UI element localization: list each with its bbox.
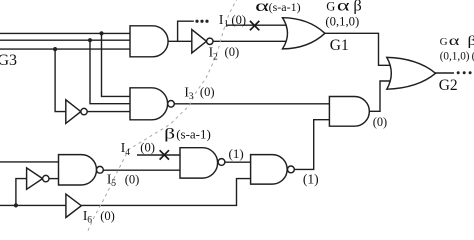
- svg-text:6: 6: [87, 216, 92, 226]
- buffer V4 triangle (branch I6): [66, 194, 81, 217]
- OR gate G2: [387, 57, 436, 89]
- wire OR G2 output: [435, 72, 454, 74]
- junction on bottom input line: [14, 203, 18, 207]
- wire NAND N1 output (net I3) to AND A2 top input: [174, 103, 329, 105]
- wire AND A2 output to OR G2 lower input: [369, 81, 390, 111]
- junction on bus line 1: [99, 31, 103, 35]
- svg-text:5: 5: [111, 179, 116, 189]
- svg-text:(s-a-1): (s-a-1): [176, 127, 211, 142]
- wire fanout stem branch up to ellipsis: [178, 21, 194, 41]
- wire inverter V3 output to NAND N3 bottom input: [49, 178, 59, 180]
- inverter V1 triangle: [66, 100, 81, 124]
- svg-text:(0): (0): [373, 115, 387, 129]
- svg-text:G: G: [440, 36, 448, 48]
- svg-text:(1): (1): [229, 146, 244, 161]
- inverter V2 bubble: [207, 38, 213, 44]
- svg-text:G1: G1: [330, 37, 349, 54]
- fault X mark alpha on I1 wire: [250, 21, 259, 30]
- svg-text:G2: G2: [439, 77, 458, 94]
- junction on bus line 2: [88, 38, 92, 42]
- AND gate A2 (2-input): [329, 97, 369, 127]
- wire fanout branch I1 to OR G1 upper input: [226, 24, 285, 26]
- ellipsis dots top fanout: [195, 20, 198, 23]
- junction on bus line 3: [53, 47, 57, 51]
- wire bus line 3 (net G3): [0, 48, 131, 50]
- svg-text:β: β: [164, 127, 175, 143]
- svg-text:α: α: [449, 34, 461, 49]
- wire inverter V2 output to OR G1 lower input: [213, 40, 286, 42]
- wire tap from bus line 1 to NAND N1 top input: [102, 33, 131, 96]
- svg-text:1: 1: [224, 19, 229, 29]
- svg-text:α: α: [337, 0, 350, 14]
- wire NAND N5 output to AND A2 bottom input: [294, 120, 330, 170]
- wire AND A1 output to inverter V2 input: [168, 40, 192, 42]
- svg-text:β: β: [353, 0, 362, 14]
- svg-text:4: 4: [125, 148, 130, 158]
- NAND N3 bubble: [97, 166, 104, 173]
- wire bottom input line to buffer V4: [0, 204, 66, 206]
- svg-text:(0): (0): [225, 45, 240, 59]
- NAND N1 bubble: [168, 101, 175, 108]
- wire tap from bus line 2 to NAND N1 middle input: [90, 40, 131, 103]
- NAND gate N5 (2-input): [251, 155, 288, 185]
- NAND gate N4 (2-input): [180, 148, 218, 178]
- inverter V3 bubble: [43, 175, 49, 181]
- wire left input to NAND N3 top input: [0, 161, 59, 163]
- NAND N5 bubble: [288, 166, 295, 173]
- ellipsis dots after G2 output: [457, 71, 460, 74]
- fault X mark beta on I4 wire: [160, 150, 169, 159]
- NAND gate N3 (2-input): [59, 155, 97, 185]
- wire buffer V4 output (net I6) to NAND N5 bottom input: [81, 179, 251, 206]
- inverter V2 triangle: [192, 30, 207, 54]
- svg-text:2: 2: [213, 52, 218, 62]
- inverter V3 triangle: [27, 168, 43, 189]
- NAND gate N1 (3-input): [130, 88, 168, 120]
- wire NAND N4 output to NAND N5 top input: [225, 161, 251, 163]
- svg-text:(0,1,0): (0,1,0): [325, 15, 359, 29]
- inverter V1 bubble: [81, 108, 87, 114]
- svg-text:(0,1,0): (0,1,0): [440, 50, 470, 62]
- wire tap from bus line 3 to inverter V1 input: [55, 49, 66, 112]
- svg-text:3: 3: [189, 92, 194, 102]
- svg-text:(0): (0): [200, 85, 215, 99]
- OR gate G1: [283, 18, 325, 49]
- svg-text:(0): (0): [140, 141, 155, 155]
- dashed partition curve: [88, 0, 238, 232]
- wire inverter V1 output to NAND N1 bottom input: [87, 111, 130, 113]
- svg-text:G3: G3: [0, 52, 17, 69]
- wire NAND N3 output (net I5) to NAND N4 bottom input: [103, 169, 180, 171]
- NAND N4 bubble: [218, 159, 225, 166]
- svg-text:G: G: [326, 0, 335, 13]
- wire branch I4 to NAND N4 top input: [137, 154, 181, 156]
- svg-text:(s-a-1): (s-a-1): [269, 0, 301, 14]
- wire tap up to inverter V3 input: [16, 179, 27, 206]
- wire OR G1 output to OR G2 upper input: [324, 33, 390, 65]
- AND gate A1 (3-input): [130, 26, 168, 57]
- svg-text:(0): (0): [125, 172, 140, 186]
- wire bus line 2 (net G3): [0, 39, 131, 41]
- svg-text:(0): (0): [231, 13, 246, 27]
- wire bus line 1 (net G3): [0, 32, 131, 34]
- svg-text:(0): (0): [100, 209, 115, 223]
- svg-text:β: β: [468, 34, 474, 49]
- svg-text:(1): (1): [303, 172, 319, 187]
